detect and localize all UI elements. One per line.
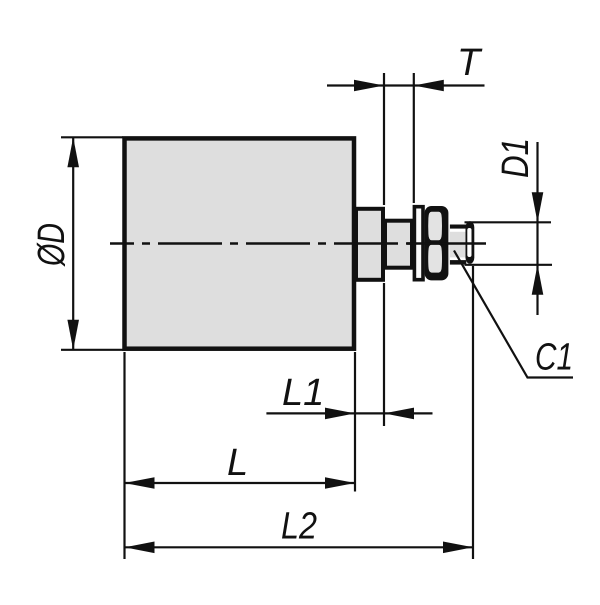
dimension L2: line: [125, 546, 474, 548]
L arrow left: [125, 477, 155, 489]
leader C1: [454, 251, 573, 378]
D1 extension line bottom: [465, 264, 553, 266]
svg-text:T: T: [457, 42, 483, 84]
dimension T: line: [327, 84, 485, 86]
D1 arrow top: [532, 192, 544, 222]
OD arrow top: [67, 137, 79, 167]
T extension line right: [413, 73, 415, 203]
T arrow left: [354, 80, 384, 92]
L1 arrow right: [384, 408, 414, 420]
svg-text:C1: C1: [535, 337, 573, 379]
L arrow right: [325, 477, 355, 489]
L2 arrow right: [443, 542, 473, 554]
dimension OD: vertical line: [72, 137, 74, 349]
svg-text:L2: L2: [281, 506, 317, 548]
L2 extension line right (stud end): [472, 266, 474, 559]
dimension D1: vertical line: [536, 142, 538, 315]
OD extension line top: [61, 136, 123, 138]
svg-text:ØD: ØD: [31, 223, 73, 268]
D1 extension line top: [465, 221, 552, 223]
stud main section: [450, 225, 466, 265]
svg-text:L: L: [227, 442, 248, 484]
centerline: [110, 242, 487, 244]
T extension line left: [383, 73, 385, 205]
svg-text:L1: L1: [282, 372, 324, 414]
threaded neck: [385, 221, 412, 268]
L1 extension line right (shoulder right edge): [383, 283, 385, 426]
shoulder collar: [356, 209, 383, 280]
OD extension line bottom: [61, 349, 123, 351]
T arrow right: [414, 80, 444, 92]
stud chamfered tip: [466, 221, 475, 263]
svg-text:D1: D1: [495, 138, 537, 178]
dimension L: line: [125, 482, 356, 484]
L1 extension line left (cylinder right edge): [354, 352, 356, 492]
L extension line left: [123, 352, 125, 559]
cylinder body: [125, 138, 355, 348]
washer: [414, 207, 423, 280]
L2 arrow left: [125, 542, 155, 554]
D1 arrow bottom: [532, 265, 544, 295]
OD arrow bottom: [67, 320, 79, 350]
L1 arrow left: [325, 408, 355, 420]
dimension L1: line: [266, 412, 432, 414]
hex nut: [425, 206, 449, 280]
centerline dash across washer: [407, 242, 425, 244]
